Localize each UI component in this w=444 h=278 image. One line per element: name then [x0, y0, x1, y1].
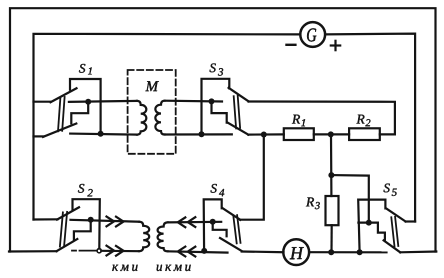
S1 coupling bar — [58, 98, 60, 132]
minus label — [287, 44, 296, 46]
S5 coupling bar — [391, 217, 394, 246]
switch S1 — [43, 79, 101, 137]
wire S1 to M bottom — [70, 134, 137, 135]
S5 step contact — [378, 223, 385, 240]
node S5 rect bottom — [357, 249, 363, 255]
label S2 — [78, 184, 84, 193]
node S4 bottom — [201, 248, 207, 254]
S3 bottom arm — [228, 123, 249, 135]
M secondary winding — [155, 101, 164, 135]
node R3 bottom — [328, 249, 334, 255]
switch S4 — [201, 199, 242, 254]
wire H to S5 region — [309, 251, 386, 253]
label S1 — [79, 64, 85, 73]
wire G plus to right rail — [326, 34, 416, 222]
wire M to S3 bottom — [165, 133, 232, 135]
indicator H — [283, 239, 309, 265]
wire R3 node to S5 contact — [331, 175, 368, 223]
S1 bottom arm — [43, 124, 76, 137]
label IKMI — [157, 265, 191, 271]
S4 top arm — [222, 208, 240, 220]
resistor R3 — [326, 196, 339, 225]
S2 coupling bar — [60, 212, 63, 246]
wire M to S3 top — [165, 100, 222, 103]
wire IKMI top to S4 — [168, 221, 222, 224]
wire node to R3 — [330, 134, 333, 196]
wire bottom bus segment left (frame corner to S2 pivot) — [9, 250, 57, 253]
S3 coupling bar — [234, 96, 236, 128]
S4 coupling bar — [233, 216, 236, 244]
S4 crossover contact (rectangle) — [204, 199, 222, 251]
S5 top arm — [386, 208, 406, 221]
plug chevrons IKMI bottom — [178, 247, 186, 257]
S3 crossover contact (rectangle) — [202, 79, 230, 134]
wire S4 bottom bus to H — [242, 250, 284, 253]
wire S2 top feed — [34, 218, 58, 220]
wire G minus to left rail — [34, 34, 301, 220]
node S1 bottom — [98, 131, 104, 137]
S5 crossover contact (rectangle) — [358, 200, 385, 253]
S2 top arm — [57, 207, 79, 219]
node R1-R2 — [328, 131, 334, 137]
wire S2 to KMI top (with node) — [71, 220, 140, 222]
S5 bottom arm — [384, 240, 401, 252]
wire S1 bottom-left feed — [34, 135, 44, 137]
S2 dash-dot contact line — [72, 250, 76, 252]
S2 open contact circle — [97, 249, 101, 253]
S2 crossover contact (rectangle) — [73, 199, 100, 248]
S5 top wire contact — [358, 222, 378, 224]
node S1 top — [85, 99, 91, 105]
node S3 top — [209, 98, 215, 104]
generator G — [300, 22, 325, 47]
label R3 — [306, 198, 314, 207]
label KMI — [112, 265, 137, 271]
coil KMI — [139, 222, 149, 252]
plug chevrons KMI bottom — [107, 246, 115, 256]
switch S2 — [57, 199, 102, 253]
switch S3 — [199, 79, 249, 137]
plug chevrons IKMI top — [178, 217, 186, 227]
node R1 left — [261, 132, 267, 138]
coil IKMI — [158, 222, 168, 251]
S1 top arm — [51, 88, 77, 102]
node S3 bottom — [199, 131, 205, 137]
wire S3 bottom pivot to R1 — [248, 133, 283, 135]
S3 top arm — [229, 88, 249, 102]
node S5 — [366, 220, 372, 226]
S1 crossover contact (rectangle) — [70, 79, 101, 134]
label S3 — [210, 64, 216, 73]
wire S5 pivot bus to frame corner — [400, 250, 436, 253]
label S5 — [384, 184, 390, 193]
resistor R2 — [349, 128, 380, 140]
wire R1 to R2 — [314, 133, 349, 135]
wire KMI bottom lead — [101, 250, 139, 253]
node S2 top — [88, 217, 94, 223]
plug chevrons KMI top — [107, 217, 115, 227]
S4 step contact — [213, 222, 227, 237]
label S4 — [211, 184, 217, 193]
S2 step contact — [74, 220, 91, 240]
resistor R1 — [284, 128, 314, 140]
wire S1 top-left feed — [34, 101, 51, 103]
S5 pivot wire to right rail — [406, 220, 416, 222]
M primary winding — [137, 101, 146, 135]
wire S3 top pivot to R2 right — [249, 102, 395, 135]
wire IKMI bottom to S4 — [168, 251, 228, 252]
S3 step contact — [212, 101, 227, 122]
S4 bottom arm — [220, 238, 242, 251]
plus label — [331, 44, 340, 46]
wire node to S4 top pivot — [240, 135, 264, 220]
label R1 — [292, 115, 300, 124]
switch S5 — [358, 200, 415, 253]
S2 bottom arm — [57, 239, 78, 251]
label M — [145, 81, 158, 91]
wire S1 to M top — [69, 101, 137, 102]
wire R3 bottom to bus — [330, 225, 332, 252]
S1 step contact — [71, 102, 88, 124]
transformer M dashed screen box — [128, 70, 176, 154]
node R3 top — [328, 172, 334, 178]
label R2 — [356, 115, 364, 124]
node S4 top — [210, 219, 216, 225]
